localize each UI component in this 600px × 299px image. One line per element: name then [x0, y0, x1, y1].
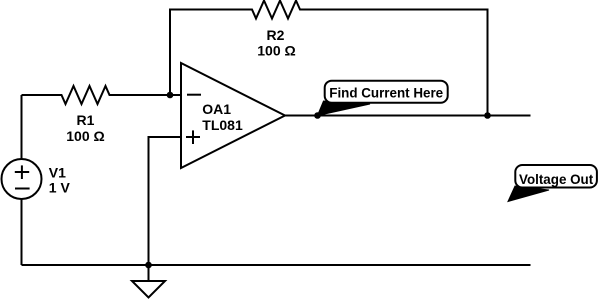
svg-text:100 Ω: 100 Ω	[257, 43, 295, 59]
svg-text:OA1: OA1	[202, 101, 231, 117]
svg-text:100 Ω: 100 Ω	[66, 128, 104, 144]
svg-text:Voltage Out: Voltage Out	[519, 172, 594, 187]
svg-text:Find Current Here: Find Current Here	[329, 85, 443, 100]
svg-text:1 V: 1 V	[49, 180, 71, 196]
svg-text:TL081: TL081	[202, 117, 243, 133]
svg-text:R1: R1	[77, 112, 95, 128]
svg-text:V1: V1	[49, 164, 66, 180]
svg-text:R2: R2	[267, 27, 285, 43]
